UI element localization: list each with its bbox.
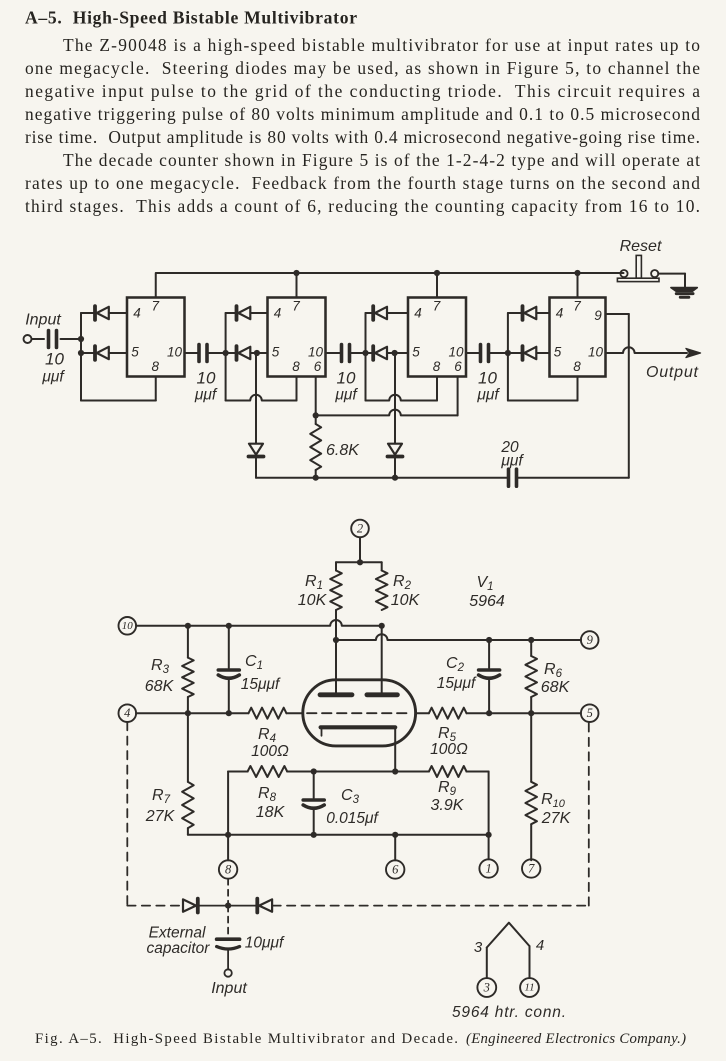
junction input node xyxy=(78,336,84,342)
svg-text:9: 9 xyxy=(587,633,594,647)
svg-text:8: 8 xyxy=(151,359,159,374)
svg-text:4: 4 xyxy=(124,706,130,720)
svg-text:8: 8 xyxy=(225,863,232,877)
dashed wire terminal4 down xyxy=(126,722,128,906)
terminal 1 xyxy=(479,859,497,877)
svg-text:Reset: Reset xyxy=(620,238,662,255)
svg-text:The Z-90048 is a high-speed bi: The Z-90048 is a high-speed bistable mul… xyxy=(63,35,700,55)
capacitor 20uuf xyxy=(507,469,511,486)
svg-text:27K: 27K xyxy=(145,808,176,825)
dashed wire bottom row right xyxy=(273,905,589,907)
wire cathode lead down xyxy=(394,729,396,772)
svg-text:18K: 18K xyxy=(256,804,286,821)
svg-text:7: 7 xyxy=(151,298,159,313)
wire R5 to terminal 5 xyxy=(467,712,581,714)
svg-text:10: 10 xyxy=(337,369,356,388)
heater connection wires xyxy=(487,923,530,948)
junction C2 top xyxy=(486,637,492,643)
wire tap to diode D1 xyxy=(255,353,257,443)
junction R6 top xyxy=(528,637,534,643)
svg-text:68K: 68K xyxy=(541,679,571,696)
svg-text:one megacycle. Steering diode: one megacycle. Steering diodes may be us… xyxy=(25,58,700,78)
svg-text:negative input pulse to the gr: negative input pulse to the grid of the … xyxy=(25,81,700,101)
wire capacitor to node xyxy=(207,352,226,354)
input terminal diagram 2 xyxy=(224,969,231,976)
dashed wire bottom row left xyxy=(127,905,181,907)
terminal 10 xyxy=(119,617,137,635)
dashed wire terminal8 to external capacitor xyxy=(227,879,229,906)
wire row 4 xyxy=(136,712,248,714)
capacitor C3 xyxy=(313,772,315,799)
junction node stage 3 xyxy=(362,350,368,356)
reset switch stem xyxy=(636,255,641,278)
junction xyxy=(434,270,440,276)
svg-text:Input: Input xyxy=(25,312,61,329)
wire R1 column to left plate xyxy=(335,640,337,693)
junction C1 top xyxy=(226,623,232,629)
steering diode lower stage 2 xyxy=(226,352,237,354)
resistor R10 xyxy=(530,713,532,782)
wire rail to reset switch xyxy=(578,272,620,274)
steering diode lower stage 4 xyxy=(508,352,523,354)
diode D1 vertical xyxy=(249,455,264,459)
junction C2 bottom xyxy=(486,710,492,716)
svg-text:6: 6 xyxy=(314,359,322,374)
svg-text:7: 7 xyxy=(433,298,441,313)
wire top supply rail xyxy=(157,272,624,274)
svg-text:5964: 5964 xyxy=(469,593,505,610)
svg-text:μμf: μμf xyxy=(476,387,500,404)
svg-text:68K: 68K xyxy=(145,678,175,695)
wire capacitor to node xyxy=(350,352,366,354)
wire input to capacitor xyxy=(32,338,45,340)
wire pin7 stage 2 to rail xyxy=(296,273,298,298)
svg-text:100Ω: 100Ω xyxy=(251,743,289,760)
terminal 6 xyxy=(386,860,404,878)
wire pin7 stage 3 to rail xyxy=(436,273,438,298)
svg-text:7: 7 xyxy=(292,298,300,313)
wire pin10 stage 2 to coupling capacitor xyxy=(326,352,342,354)
tube grid dashed xyxy=(307,712,412,714)
wire node vertical stage 1 xyxy=(80,313,82,354)
svg-text:15μμf: 15μμf xyxy=(437,675,477,692)
terminal 5 xyxy=(581,704,599,722)
wire terminal2 down xyxy=(359,537,361,562)
wire R1 column xyxy=(335,610,337,640)
svg-text:Input: Input xyxy=(211,980,247,997)
external diode left xyxy=(196,899,200,913)
coupling capacitor 10uuf xyxy=(340,345,344,362)
wire diode D1 to bottom rail xyxy=(255,457,257,478)
wire capacitor to node xyxy=(489,352,508,354)
tube right plate xyxy=(367,692,398,697)
tube cathode xyxy=(321,725,396,729)
svg-text:7: 7 xyxy=(528,862,535,876)
svg-text:2: 2 xyxy=(357,522,363,536)
resistor R7 xyxy=(182,782,194,828)
svg-text:10: 10 xyxy=(308,344,324,359)
svg-text:27K: 27K xyxy=(541,810,572,827)
junction C3 top xyxy=(311,768,317,774)
svg-text:0.015μf: 0.015μf xyxy=(326,810,379,827)
svg-text:8: 8 xyxy=(573,359,581,374)
svg-text:negative triggering pulse of 8: negative triggering pulse of 80 volts mi… xyxy=(25,104,700,124)
terminal 3 heater xyxy=(477,978,496,997)
svg-text:9: 9 xyxy=(594,308,602,323)
svg-text:A–5. High-Speed Bistable Mult: A–5. High-Speed Bistable Multivibrator xyxy=(25,8,357,28)
reset switch right contact xyxy=(651,270,658,277)
steering diode upper stage 1 xyxy=(81,312,95,314)
resistor R2 xyxy=(376,571,388,611)
reset switch bar xyxy=(617,278,659,281)
wire terminal1 column xyxy=(488,835,490,859)
resistor R8 xyxy=(248,766,288,777)
junction 6.8K top xyxy=(313,412,319,418)
resistor R4 xyxy=(249,708,287,719)
tube left plate xyxy=(320,692,352,697)
svg-text:4: 4 xyxy=(536,937,544,954)
wire R4 to tube xyxy=(286,712,302,714)
flip-flop stage 3 box xyxy=(408,298,466,377)
resistor R5 xyxy=(429,708,467,719)
svg-text:10: 10 xyxy=(588,344,604,359)
svg-text:1: 1 xyxy=(485,862,491,876)
svg-text:4: 4 xyxy=(556,305,564,320)
junction external node xyxy=(225,903,231,909)
svg-text:10: 10 xyxy=(122,620,134,632)
wire pin6 stage2 to pin6 stage3 xyxy=(316,410,458,416)
junction R3 bottom xyxy=(185,710,191,716)
wire grid row R8 R9 xyxy=(228,771,248,773)
wire pin9 stage4 xyxy=(606,313,629,315)
dashed wire up to terminal 5 xyxy=(588,723,590,906)
steering diode upper stage 3 xyxy=(366,312,374,314)
svg-text:μμf: μμf xyxy=(334,387,358,404)
junction R6 bottom xyxy=(528,710,534,716)
svg-text:7: 7 xyxy=(573,298,581,313)
wire bottom rail diagram 1 xyxy=(256,477,509,479)
svg-text:The decade counter shown in Fi: The decade counter shown in Figure 5 is … xyxy=(63,150,700,170)
wire row 10 with hop over R1 column xyxy=(136,620,382,626)
input terminal xyxy=(24,335,32,343)
svg-text:third stages. This adds a cou: third stages. This adds a count of 6, re… xyxy=(25,196,700,216)
wire pin10 stage 3 to coupling capacitor xyxy=(466,352,481,354)
svg-text:10μμf: 10μμf xyxy=(245,935,285,952)
junction xyxy=(574,270,580,276)
junction cathode row xyxy=(392,768,398,774)
flip-flop stage 1 box xyxy=(127,298,185,377)
svg-text:3: 3 xyxy=(483,981,490,995)
svg-text:Output: Output xyxy=(646,364,699,381)
svg-text:6.8K: 6.8K xyxy=(326,442,360,459)
resistor R1 xyxy=(330,571,342,611)
svg-text:capacitor: capacitor xyxy=(147,940,211,957)
wire terminal6 column xyxy=(394,835,396,860)
resistor R9 xyxy=(429,766,467,777)
wire node vertical stage 4 xyxy=(507,313,509,353)
junction R3 top xyxy=(185,623,191,629)
capacitor C2 xyxy=(488,640,490,668)
svg-text:5: 5 xyxy=(412,344,420,359)
svg-text:10: 10 xyxy=(45,350,64,369)
svg-text:6: 6 xyxy=(392,863,399,877)
svg-text:rates up to one megacycle. Fe: rates up to one megacycle. Feedback from… xyxy=(25,173,700,193)
wire node vertical stage 3 xyxy=(365,313,367,353)
steering diode upper stage 4 xyxy=(508,312,523,314)
wire diode D2 to bottom rail xyxy=(394,457,396,478)
svg-text:rise time. Output amplitude i: rise time. Output amplitude is 80 volts … xyxy=(25,127,700,147)
svg-text:5: 5 xyxy=(272,344,280,359)
junction R1 R2 top xyxy=(357,559,363,565)
coupling capacitor 10uuf xyxy=(197,345,201,362)
junction R9 rail xyxy=(486,832,492,838)
flip-flop stage 2 box xyxy=(268,298,326,377)
external diode right xyxy=(228,905,257,907)
junction cathode column rail xyxy=(392,832,398,838)
junction D2 bottom xyxy=(392,475,398,481)
svg-text:8: 8 xyxy=(433,359,441,374)
terminal 4 xyxy=(119,704,137,722)
svg-text:6: 6 xyxy=(454,359,462,374)
wire feedback loop stage 1 xyxy=(80,353,82,401)
wire pin9 vertical to bottom rail xyxy=(628,348,630,478)
steering diode lower stage 3 xyxy=(366,352,374,354)
junction R2 bottom xyxy=(379,623,385,629)
svg-text:5964 htr. conn.: 5964 htr. conn. xyxy=(452,1004,566,1021)
svg-text:Fig. A–5. High-Speed Bistable: Fig. A–5. High-Speed Bistable Multivibra… xyxy=(35,1031,458,1047)
svg-text:μμf: μμf xyxy=(194,387,218,404)
ground symbol xyxy=(671,288,697,292)
svg-text:μμf: μμf xyxy=(500,453,524,470)
svg-text:External: External xyxy=(149,925,206,942)
wire feedback loop stage 3 xyxy=(365,353,367,401)
svg-text:10: 10 xyxy=(167,344,183,359)
svg-text:11: 11 xyxy=(524,982,534,994)
capacitor 10uuf input xyxy=(47,331,51,348)
wire tube to R5 xyxy=(416,712,429,714)
wire tap to diode D2 xyxy=(394,353,396,443)
wire feedback loop stage 2 xyxy=(225,353,227,401)
capacitor C1 xyxy=(228,626,230,668)
junction C1 bottom xyxy=(226,710,232,716)
junction C3 bottom xyxy=(311,832,317,838)
junction 6.8K bottom xyxy=(313,475,319,481)
resistor R3 xyxy=(187,626,189,658)
svg-text:μμf: μμf xyxy=(41,369,65,386)
wire pin7 stage 1 to rail xyxy=(155,273,157,298)
wire feedback loop stage 4 xyxy=(507,353,509,401)
steering diode lower stage 1 xyxy=(81,352,95,354)
svg-text:4: 4 xyxy=(133,305,141,320)
svg-text:10: 10 xyxy=(478,369,497,388)
wire terminal8 column xyxy=(227,772,229,861)
output arrowhead xyxy=(686,349,701,358)
svg-text:15μμf: 15μμf xyxy=(241,676,281,693)
junction node stage 2 xyxy=(223,350,229,356)
junction diode tap stage 2 xyxy=(254,350,260,356)
terminal 7 xyxy=(522,859,540,877)
wire R2 column to right plate xyxy=(381,626,383,693)
terminal 8 xyxy=(219,860,237,878)
wire tee to R1 and R2 tops xyxy=(336,561,382,563)
svg-text:100Ω: 100Ω xyxy=(430,741,468,758)
flip-flop stage 4 box xyxy=(550,298,606,377)
junction xyxy=(293,270,299,276)
svg-text:4: 4 xyxy=(414,305,422,320)
wire node vertical stage 2 xyxy=(225,313,227,353)
svg-text:3.9K: 3.9K xyxy=(431,797,465,814)
svg-text:10: 10 xyxy=(448,344,464,359)
wire output with hop xyxy=(606,347,688,353)
junction terminal8 column xyxy=(225,832,231,838)
reset switch left contact xyxy=(620,270,627,277)
wire capacitor to node xyxy=(61,338,82,340)
coupling capacitor 10uuf xyxy=(479,345,483,362)
svg-text:4: 4 xyxy=(274,305,282,320)
external capacitor 10uuf xyxy=(217,937,240,941)
wire pin7 stage 4 to rail xyxy=(577,273,579,298)
resistor 6.8K xyxy=(310,424,321,470)
junction R1 bottom row9 xyxy=(333,637,339,643)
svg-text:10: 10 xyxy=(197,369,216,388)
wire R9 down to rail xyxy=(488,772,490,835)
tube V1 envelope xyxy=(303,680,416,746)
svg-text:8: 8 xyxy=(292,359,300,374)
junction node stage 1 xyxy=(78,350,84,356)
junction diode tap stage 3 xyxy=(392,350,398,356)
svg-text:10K: 10K xyxy=(391,592,421,609)
wire reset to ground xyxy=(658,273,685,275)
terminal 2 xyxy=(351,520,369,538)
terminal 9 xyxy=(581,631,599,649)
diode D2 vertical xyxy=(388,455,403,459)
wire pin10 stage 1 to coupling capacitor xyxy=(185,352,200,354)
svg-text:5: 5 xyxy=(587,706,593,720)
terminal 11 heater xyxy=(520,978,539,997)
svg-text:10K: 10K xyxy=(298,592,328,609)
steering diode upper stage 2 xyxy=(226,312,237,314)
resistor R6 xyxy=(530,640,532,656)
wire pin6 stage2 down xyxy=(315,377,317,416)
junction node stage 4 xyxy=(505,350,511,356)
svg-text:5: 5 xyxy=(131,344,139,359)
wire bottom rail diagram 2 xyxy=(188,834,489,836)
svg-text:5: 5 xyxy=(554,344,562,359)
wire row 9 with hop over R2 column xyxy=(336,634,581,640)
svg-text:(Engineered Electronics Compan: (Engineered Electronics Company.) xyxy=(466,1031,686,1047)
svg-text:3: 3 xyxy=(474,939,483,956)
